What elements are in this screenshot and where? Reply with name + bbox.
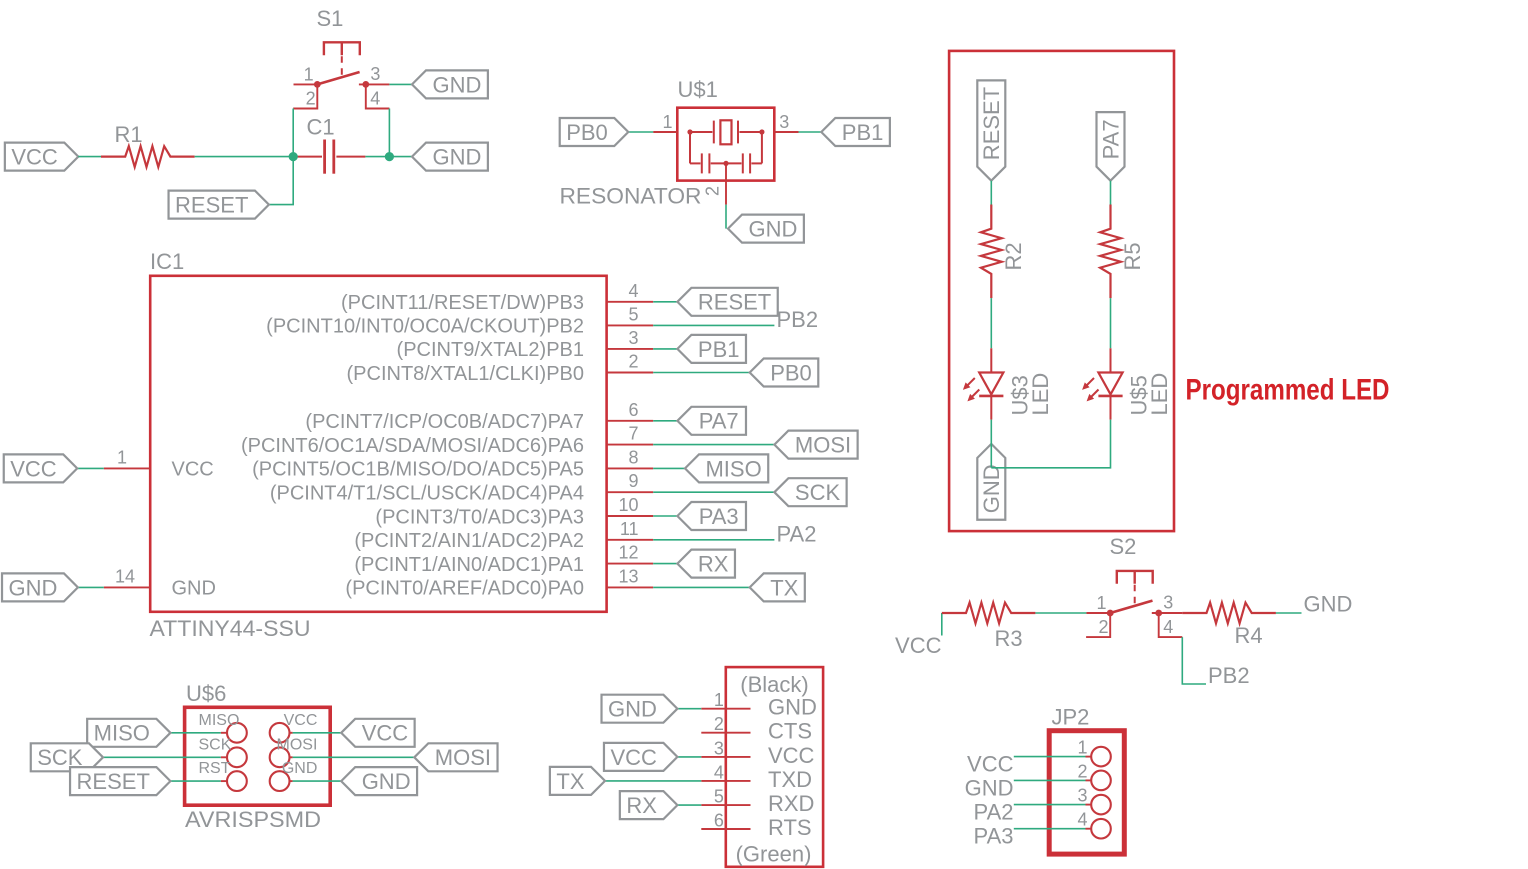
svg-text:6: 6 [714,811,724,831]
svg-text:SCK: SCK [199,736,232,753]
annotation box around LED circuits [949,51,1174,531]
svg-text:LED: LED [1147,373,1172,416]
svg-text:U$1: U$1 [678,77,718,102]
wire MISO flag to U$6 [170,732,220,734]
svg-text:GND: GND [362,769,411,794]
resonator U$1 pin 3 lead [774,131,798,133]
svg-text:3: 3 [779,112,789,132]
svg-text:CTS: CTS [768,719,812,744]
svg-text:PA3: PA3 [974,824,1014,849]
svg-text:PA3: PA3 [699,504,739,529]
svg-text:13: 13 [618,566,638,586]
svg-text:VCC: VCC [610,745,657,770]
svg-text:1: 1 [304,64,314,84]
svg-text:R5: R5 [1120,242,1145,270]
svg-text:(PCINT10/INT0/OC0A/CKOUT)PB2: (PCINT10/INT0/OC0A/CKOUT)PB2 [266,316,584,338]
svg-text:S1: S1 [317,6,344,31]
switch S2 pin numbers [1096,593,1173,638]
wire GND flag to FTDI pin 1 [677,708,701,710]
wire U$3 cathode to GND net [990,420,992,468]
resistor R4 [1182,603,1276,624]
wire IC1 to PB0 flag [653,372,750,374]
header JP2 pin numbers [1077,738,1087,830]
wire RX flag to FTDI pin 5 [677,804,701,806]
svg-text:(PCINT2/AIN1/ADC2)PA2: (PCINT2/AIN1/ADC2)PA2 [354,530,584,552]
svg-text:VCC: VCC [362,721,409,746]
capacitor C1 [293,140,365,174]
svg-text:4: 4 [714,762,724,782]
net flag RESET (to IC) [169,191,269,219]
wire U$6 to MOSI flag [293,756,415,758]
svg-text:4: 4 [370,89,380,109]
wire R3 to S2 pin 1 [1035,612,1086,614]
ground flag GND (at C1) [412,143,488,171]
svg-text:(PCINT3/T0/ADC3)PA3: (PCINT3/T0/ADC3)PA3 [375,506,584,528]
resonator U$1 crystal symbol [687,120,764,173]
wire IC1 to TX flag [653,586,750,588]
svg-text:1: 1 [1077,738,1087,758]
resistor R1 [101,146,195,167]
ground flag GND (at resonator) [728,215,804,243]
net flag MISO (IC1 side) [685,454,768,482]
wire RESET flag to U$6 [170,780,220,782]
wire VCC flag to IC1 pin 1 [77,467,104,469]
net flag MOSI (IC1 side) [774,431,857,459]
net flag PB0 (to resonator) [560,118,629,146]
svg-text:GND: GND [979,464,1004,513]
header U$6 pin circles [227,723,290,791]
svg-text:GND: GND [282,760,318,777]
svg-text:R3: R3 [995,626,1023,651]
header U$6 body box [185,707,331,805]
header JP2 pin leads [1086,757,1092,829]
svg-text:(PCINT0/AREF/ADC0)PA0: (PCINT0/AREF/ADC0)PA0 [345,578,584,600]
switch S2 actuator dashed link [1134,585,1136,608]
svg-text:(Green): (Green) [736,842,812,867]
svg-text:4: 4 [1077,810,1087,830]
svg-text:RESET: RESET [979,87,1004,160]
switch S1 pin 3 contact dot [362,81,369,88]
ground flag GND (IC1) [2,573,78,601]
switch S1 pin 3 lead [359,83,390,85]
svg-text:S2: S2 [1110,534,1137,559]
svg-text:(PCINT8/XTAL1/CLKI)PB0: (PCINT8/XTAL1/CLKI)PB0 [347,363,584,385]
svg-text:11: 11 [620,519,639,539]
net flag PB1 (IC1 side) [677,335,746,363]
wire IC1 PA2 net [653,539,774,541]
svg-text:VCC: VCC [967,752,1014,777]
IC IC1 body box [150,276,606,612]
net flag PA7 (LED branch) [1097,112,1125,181]
svg-text:PB2: PB2 [777,307,819,332]
svg-text:2: 2 [1098,617,1108,637]
svg-text:MOSI: MOSI [795,433,851,458]
svg-text:MOSI: MOSI [435,745,491,770]
wire U$5 cathode to GND net [991,420,1110,468]
svg-text:LED: LED [1028,373,1053,416]
ground flag GND (LED branch) [977,444,1005,520]
wire R4 to GND net [1276,612,1302,614]
JP2 side net labels [965,752,1014,849]
svg-text:4: 4 [1163,617,1173,637]
supply flag VCC (U$6) [341,719,414,747]
wire VCC flag to FTDI pin 3 [677,756,701,758]
svg-text:(Black): (Black) [740,672,808,697]
wire GND net to JP2 [1014,779,1086,781]
net flag MISO (U$6) [87,719,170,747]
svg-text:5: 5 [628,304,638,324]
net flag RESET (IC1 side) [677,288,777,316]
header U$6 inside pin labels [199,712,318,777]
svg-text:PB0: PB0 [566,120,608,145]
wire R1 to node RESET-junction [195,156,294,158]
wire S1 pin3 to GND flag [389,83,412,85]
svg-text:RXD: RXD [768,791,814,816]
IC1 left-side pin names VCC GND [172,459,216,600]
wire IC1 to MOSI flag [653,444,774,446]
wire RESET flag to junction [269,157,293,205]
wire IC1 to PA3 flag [653,515,677,517]
IC1 right-side pin leads [607,302,654,588]
wire R5 to LED U$5 [1110,298,1112,348]
ground flag GND (at S1) [412,70,488,98]
ground flag GND (FTDI) [602,695,678,723]
LED U$3 [963,348,1004,419]
svg-text:VCC: VCC [11,145,58,170]
resistor R3 [942,603,1036,624]
svg-text:PB0: PB0 [770,360,812,385]
net flag PA7 (IC1 side) [677,407,746,435]
svg-text:GND: GND [768,695,817,720]
FTDI pin leads [701,709,750,829]
wire C1 to GND flag [365,156,412,158]
supply flag VCC (FTDI) [604,743,677,771]
svg-text:VCC: VCC [172,459,214,481]
net flag TX (FTDI) [550,767,605,795]
svg-text:AVRISPSMD: AVRISPSMD [185,807,321,832]
net flag PB0 (IC1 side) [750,359,819,387]
net flag RX (FTDI) [620,791,678,819]
wire IC1 to MISO flag [653,467,685,469]
net flag TX (IC1 side) [750,573,805,601]
IC1 pin 14 lead (GND) [104,586,150,588]
net flag MOSI (U$6) [414,743,497,771]
svg-text:3: 3 [1163,593,1173,613]
svg-text:4: 4 [628,281,638,301]
switch S2 actuator bracket [1117,571,1153,584]
svg-text:SCK: SCK [795,480,841,505]
svg-text:3: 3 [628,328,638,348]
svg-text:GND: GND [965,775,1014,800]
wire PA3 net to JP2 [1014,828,1086,830]
svg-text:RESONATOR: RESONATOR [560,184,702,209]
ground flag GND (U$6) [341,767,417,795]
switch S1 pin numbers [304,64,381,109]
wire IC1 to PA7 flag [653,420,677,422]
wire PA2 net to JP2 [1014,804,1086,806]
wire U$6 to VCC flag [293,732,342,734]
IC1 right-side pin function names [241,292,584,600]
svg-text:R4: R4 [1235,623,1263,648]
svg-text:RESET: RESET [175,193,248,218]
wire VCC flag to R1 [78,156,101,158]
wire GND flag to IC1 pin 14 [78,586,104,588]
svg-text:GND: GND [748,217,797,242]
resonator U$1 pin 2 lead [725,164,727,205]
svg-text:C1: C1 [307,115,335,140]
svg-text:2: 2 [628,352,638,372]
svg-text:2: 2 [714,714,724,734]
svg-text:2: 2 [1077,761,1087,781]
svg-text:8: 8 [628,447,638,467]
wire U$1 pin 3 to PB1 flag [799,131,822,133]
svg-text:PA2: PA2 [777,521,817,546]
header JP2 pin circles [1091,747,1111,839]
switch S2 pin 1 lead [1086,612,1110,614]
wire IC1 to SCK flag [653,491,774,493]
wire U$1 pin 2 to GND flag [725,205,727,229]
svg-text:PA7: PA7 [699,409,739,434]
net flag RX (IC1 side) [677,550,735,578]
svg-text:GND: GND [432,72,481,97]
resistor R5 [1100,205,1121,299]
junction node RESET net [289,152,298,161]
svg-text:Programmed LED: Programmed LED [1186,374,1390,407]
svg-text:10: 10 [618,495,638,515]
supply flag VCC (reset net) [5,143,78,171]
switch S2 pin 4 lead [1159,613,1183,637]
svg-text:PB1: PB1 [842,120,884,145]
net flag RESET (U$6) [70,767,170,795]
net flag RESET (LED branch) [977,80,1005,180]
svg-text:14: 14 [115,566,135,586]
svg-text:VCC: VCC [895,633,942,658]
svg-text:MISO: MISO [199,712,240,729]
svg-text:RESET: RESET [698,290,771,315]
switch S2 pin 2 lead [1086,613,1110,637]
svg-text:MOSI: MOSI [277,736,318,753]
svg-text:PB1: PB1 [698,337,740,362]
svg-text:7: 7 [628,424,638,444]
svg-text:12: 12 [618,543,638,563]
IC1 right-side pin numbers [618,281,638,587]
svg-text:(PCINT9/XTAL2)PB1: (PCINT9/XTAL2)PB1 [397,339,584,361]
FTDI pin numbers [714,690,724,830]
wire IC1 PB2 net [653,324,774,326]
resonator U$1 body box [677,108,774,181]
switch S2 pin 3 contact dot [1155,610,1162,617]
header JP2 body box [1049,731,1124,854]
wire TX flag to FTDI pin 4 [605,780,701,782]
wire IC1 to PB1 flag [653,348,677,350]
svg-text:PA7: PA7 [1098,119,1123,159]
svg-text:ATTINY44-SSU: ATTINY44-SSU [150,616,311,641]
svg-text:(PCINT4/T1/SCL/USCK/ADC4)PA4: (PCINT4/T1/SCL/USCK/ADC4)PA4 [270,483,584,505]
switch S1 lever [317,72,359,84]
svg-text:RST: RST [199,760,231,777]
svg-text:1: 1 [662,112,672,132]
svg-text:5: 5 [714,787,724,807]
svg-text:3: 3 [370,64,380,84]
svg-text:TX: TX [556,769,584,794]
wire R2 to LED U$3 [990,298,992,348]
svg-text:MISO: MISO [94,721,150,746]
wire PB0 flag to U$1 pin 1 [628,131,653,133]
svg-text:R2: R2 [1001,242,1026,270]
svg-text:(PCINT1/AIN0/ADC1)PA1: (PCINT1/AIN0/ADC1)PA1 [354,554,584,576]
svg-text:1: 1 [714,690,724,710]
svg-text:PB2: PB2 [1208,663,1250,688]
svg-text:JP2: JP2 [1052,705,1090,730]
wire RESET flag to R2 [990,181,992,205]
svg-text:1: 1 [1096,593,1106,613]
svg-text:1: 1 [117,447,127,467]
svg-text:GND: GND [172,578,216,600]
svg-text:GND: GND [1304,592,1353,617]
svg-text:GND: GND [608,697,657,722]
svg-text:IC1: IC1 [150,249,184,274]
svg-text:U$6: U$6 [186,681,226,706]
LED U$5 [1082,348,1123,419]
svg-text:R1: R1 [115,122,143,147]
switch S1 actuator dashed link [341,56,343,79]
net flag PA3 (IC1 side) [677,502,746,530]
svg-text:GND: GND [432,145,481,170]
svg-text:2: 2 [306,89,316,109]
wire IC1 to RX flag [653,563,677,565]
switch S1 pin 1 lead [294,83,318,85]
switch S1 actuator bracket [324,42,360,55]
supply flag VCC (IC1) [4,454,77,482]
switch S2 pin 3 lead [1152,612,1183,614]
net flag SCK (U$6) [31,743,103,771]
svg-text:RX: RX [626,793,657,818]
svg-text:TX: TX [770,575,798,600]
svg-text:(PCINT7/ICP/OC0B/ADC7)PA7: (PCINT7/ICP/OC0B/ADC7)PA7 [305,411,584,433]
svg-text:(PCINT6/OC1A/SDA/MOSI/ADC6)PA6: (PCINT6/OC1A/SDA/MOSI/ADC6)PA6 [241,435,584,457]
FTDI pin names [768,695,817,840]
wire U$6 to GND flag [293,780,342,782]
svg-text:2: 2 [702,186,722,196]
wire S2 pin 4 to PB2 net [1182,637,1206,684]
resistor R2 [981,205,1002,299]
svg-text:3: 3 [714,738,724,758]
svg-text:RX: RX [698,552,729,577]
svg-text:3: 3 [1077,786,1087,806]
junction node C1/GND [385,152,394,161]
FTDI connector body box [726,667,823,867]
header U$6 pin leads [221,733,293,781]
wire IC1 to RESET flag [653,301,677,303]
svg-text:TXD: TXD [768,767,812,792]
wire S1 pin4 down to GND net [388,109,390,157]
resonator U$1 pin 1 lead [653,131,677,133]
net flag SCK (IC1 side) [774,478,846,506]
svg-text:6: 6 [628,400,638,420]
switch S1 pin 1 contact dot [314,81,321,88]
switch S1 pin 2 lead [293,84,317,108]
switch S2 pin 1 contact dot [1107,610,1114,617]
svg-text:MISO: MISO [705,456,761,481]
IC1 pin 1 lead (VCC) [104,467,150,469]
wire VCC net stub at R3 [941,613,943,636]
svg-text:(PCINT5/OC1B/MISO/DO/ADC5)PA5: (PCINT5/OC1B/MISO/DO/ADC5)PA5 [252,459,584,481]
wire VCC net to JP2 [1014,756,1086,758]
svg-text:9: 9 [628,471,638,491]
wire SCK flag to U$6 [103,756,221,758]
net flag PB1 (at resonator) [821,118,890,146]
svg-text:(PCINT11/RESET/DW)PB3: (PCINT11/RESET/DW)PB3 [341,292,584,314]
svg-text:RTS: RTS [768,815,812,840]
switch S1 pin 4 lead [366,84,390,108]
svg-text:VCC: VCC [10,456,57,481]
wire S1 pin2 to RESET junction [292,109,294,157]
svg-text:GND: GND [9,575,58,600]
wire PA7 flag to R5 [1110,181,1112,205]
svg-text:VCC: VCC [284,712,318,729]
svg-text:PA2: PA2 [974,800,1014,825]
svg-text:VCC: VCC [768,743,815,768]
switch S2 lever [1110,601,1152,613]
svg-text:RESET: RESET [77,769,150,794]
